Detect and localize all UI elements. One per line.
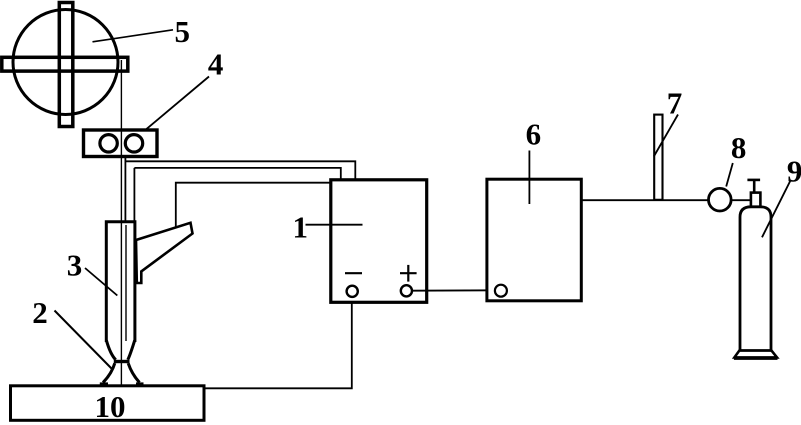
- svg-text:2: 2: [32, 295, 48, 330]
- svg-text:9: 9: [787, 153, 801, 188]
- svg-text:5: 5: [174, 14, 190, 49]
- svg-text:7: 7: [667, 85, 683, 120]
- svg-text:3: 3: [67, 248, 83, 283]
- svg-text:4: 4: [208, 47, 224, 82]
- svg-text:10: 10: [95, 389, 126, 424]
- svg-text:8: 8: [731, 130, 747, 165]
- svg-text:6: 6: [526, 117, 542, 152]
- svg-text:1: 1: [292, 210, 308, 245]
